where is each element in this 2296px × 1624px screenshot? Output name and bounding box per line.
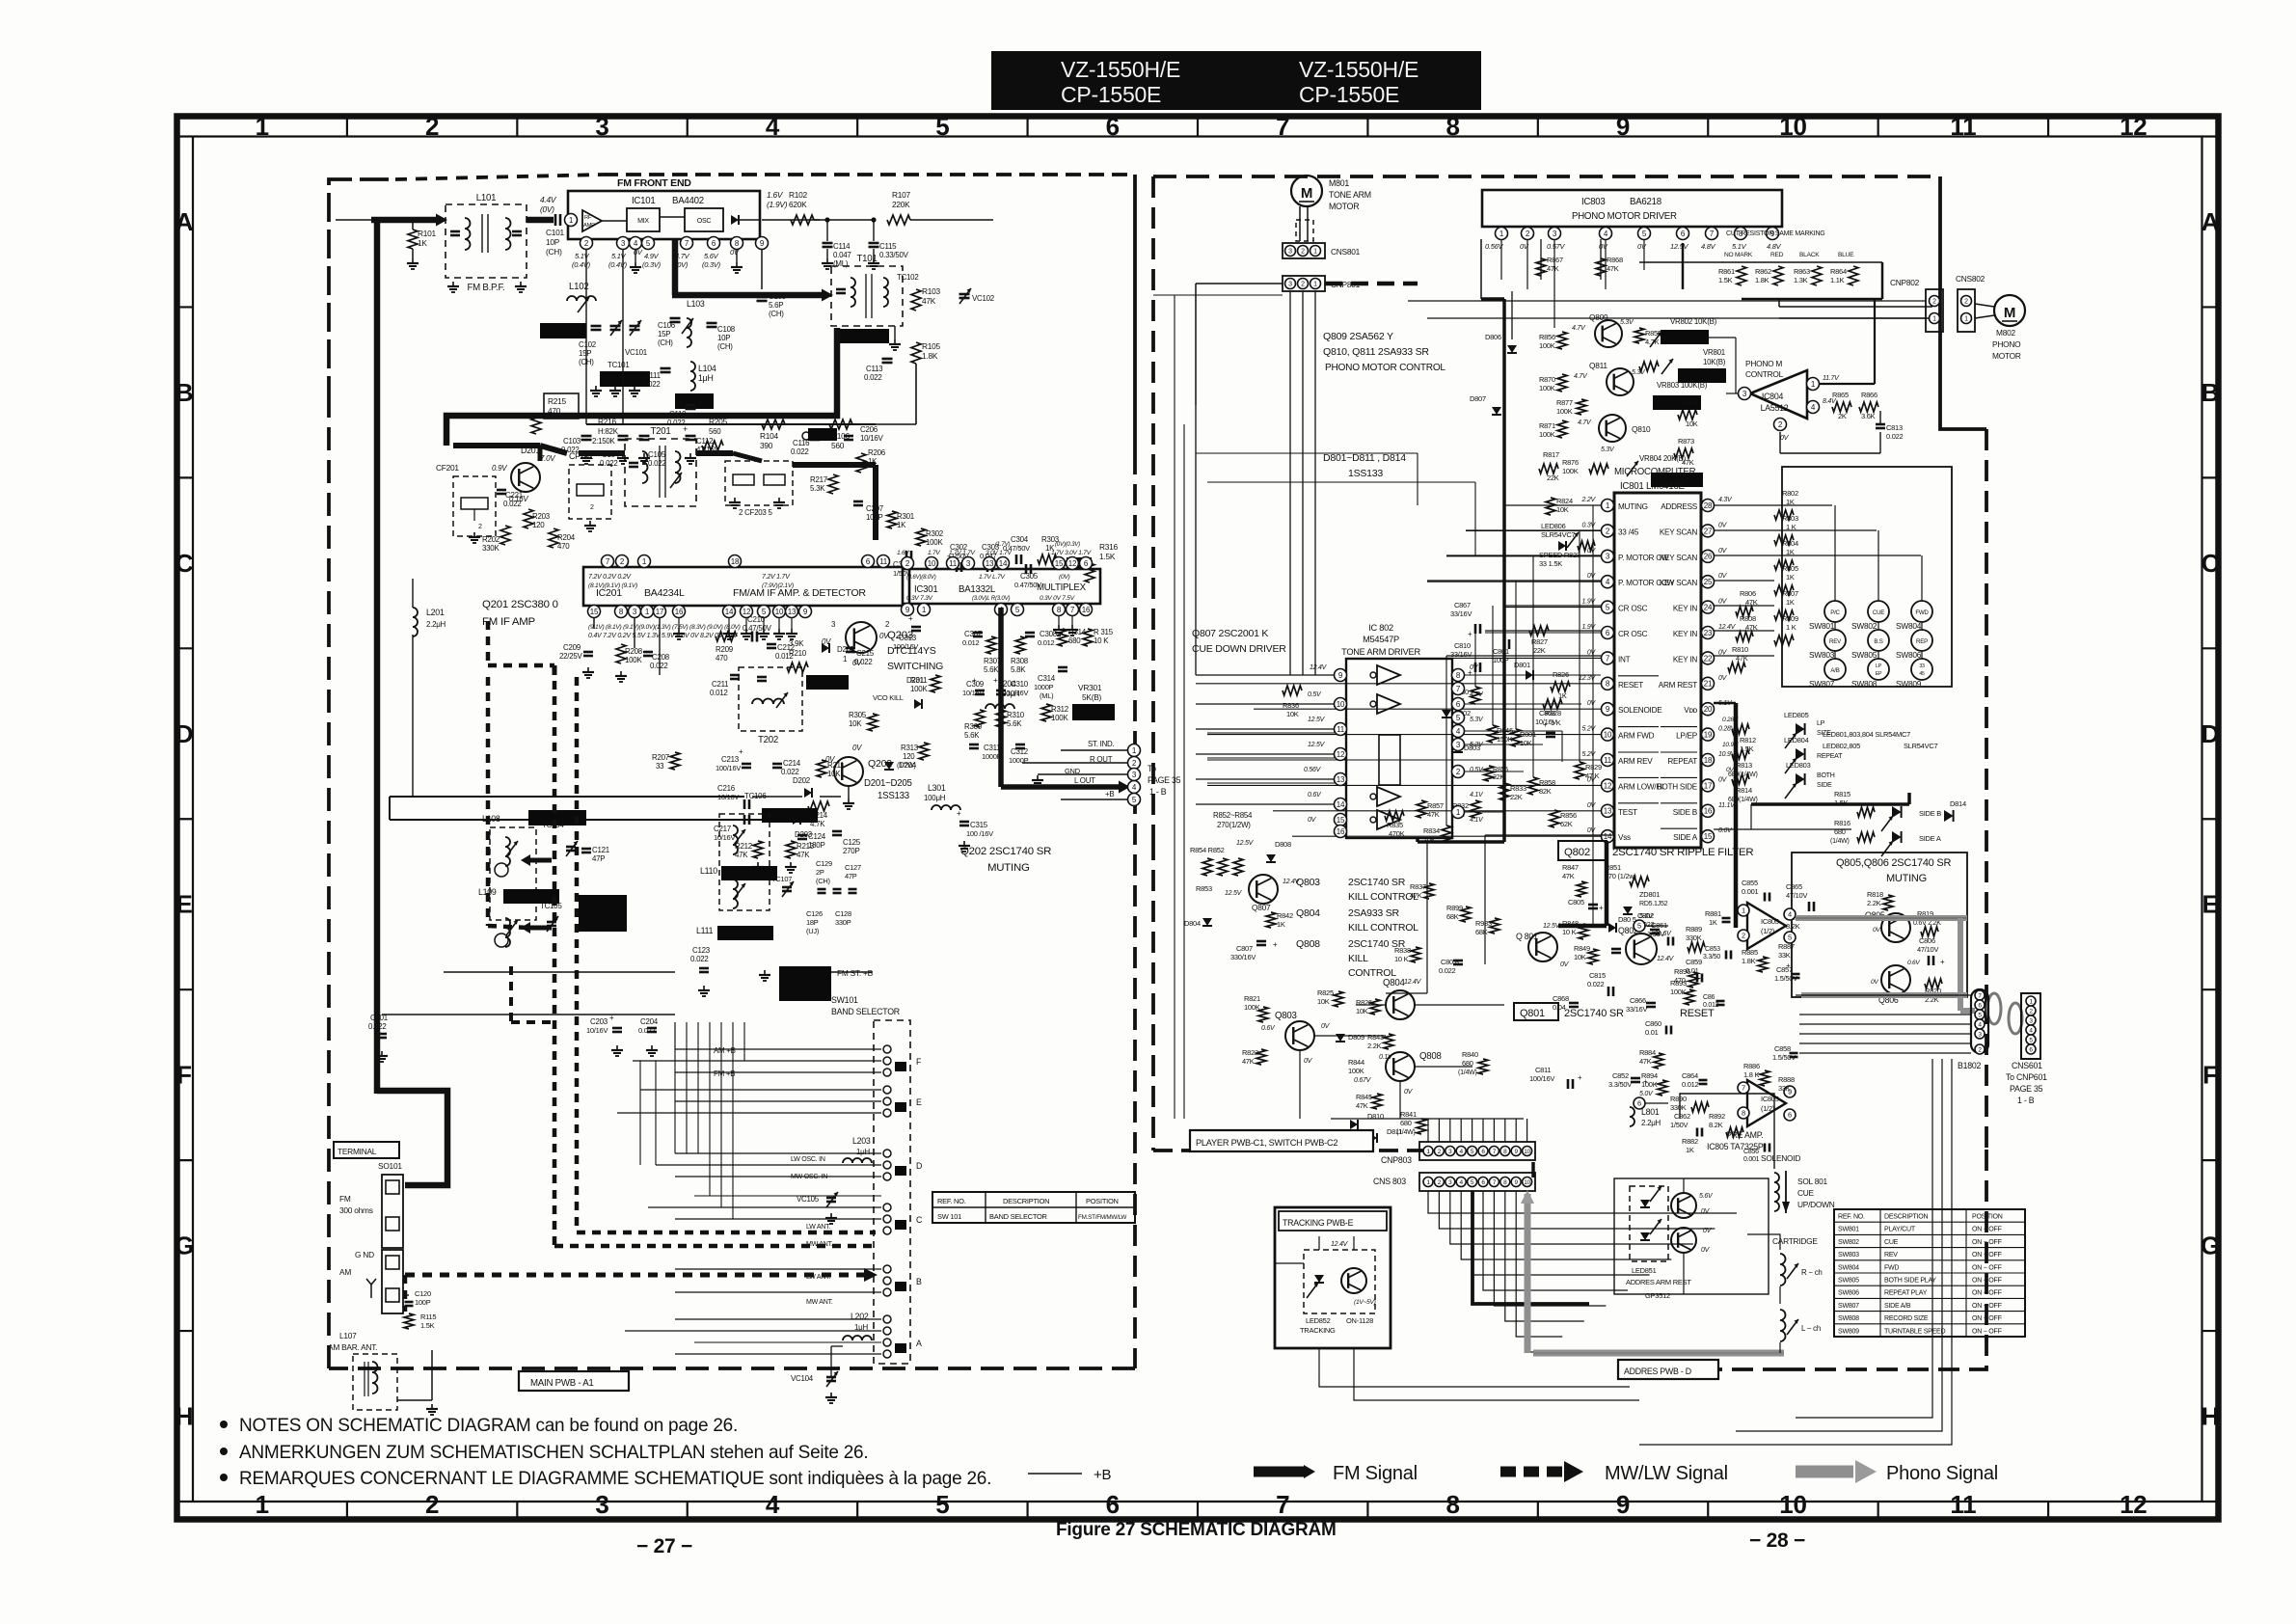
MW/LW dashed AM antenna trace (405, 1273, 864, 1278)
IC301 top pins (902, 557, 914, 570)
svg-text:MOTOR: MOTOR (1992, 351, 2021, 361)
svg-text:68K: 68K (1446, 912, 1459, 921)
grid column tick bottom 3 (687, 1502, 689, 1520)
IC801 right pin 15 SIDE A (1702, 830, 1715, 843)
grid row tick right E (2202, 818, 2219, 820)
svg-text:ON − OFF: ON − OFF (1972, 1239, 2003, 1246)
thick trace pin5 down (1472, 1191, 1589, 1304)
svg-text:AM +B: AM +B (714, 1046, 736, 1055)
svg-text:R810: R810 (1732, 645, 1748, 654)
svg-text:5.1V: 5.1V (1732, 242, 1747, 251)
svg-text:ON − OFF: ON − OFF (1972, 1252, 2003, 1259)
svg-text:H: H (2201, 1402, 2220, 1431)
VR803 blob (1653, 395, 1701, 410)
svg-text:Figure 27 SCHEMATIC DIAGRAM: Figure 27 SCHEMATIC DIAGRAM (1056, 1520, 1337, 1540)
svg-text:CR OSC: CR OSC (1618, 605, 1648, 613)
IC801 left pin 11 ARM REV (1602, 754, 1614, 767)
svg-text:SW802: SW802 (1838, 1239, 1859, 1246)
svg-text:28: 28 (1704, 501, 1713, 510)
svg-text:C120: C120 (415, 1289, 431, 1298)
svg-text:R216: R216 (598, 417, 617, 426)
svg-text:+B: +B (1094, 1467, 1112, 1483)
capacitor C108 10P (707, 322, 717, 325)
svg-text:82K: 82K (1539, 787, 1552, 796)
svg-text:R307: R307 (984, 657, 1001, 665)
svg-text:0.022: 0.022 (503, 500, 522, 508)
svg-text:0.28V: 0.28V (1722, 717, 1739, 723)
svg-text:REV: REV (1884, 1252, 1898, 1259)
svg-text:13: 13 (788, 608, 797, 616)
grid column tick top 10 (1877, 117, 1879, 137)
svg-text:13: 13 (1604, 807, 1612, 816)
tracking wires (1318, 1236, 1320, 1250)
svg-text:DESCRIPTION: DESCRIPTION (1884, 1214, 1928, 1221)
svg-text:1.6V: 1.6V (767, 190, 784, 200)
resistor R857 47K (1417, 800, 1426, 818)
svg-text:5.3V: 5.3V (1470, 717, 1484, 723)
grid row tick right C (2202, 476, 2219, 478)
VR804 blob (1651, 473, 1703, 487)
switch box outline (1782, 467, 1952, 687)
transistor Q811 (1607, 368, 1634, 395)
svg-text:10K: 10K (1686, 420, 1698, 428)
FM signal trace from antenna (371, 217, 436, 224)
svg-text:LP: LP (1817, 720, 1825, 727)
svg-text:560: 560 (831, 441, 845, 450)
svg-text:0.01: 0.01 (1645, 1028, 1659, 1037)
svg-text:C807: C807 (1236, 944, 1253, 953)
svg-text:R888: R888 (1778, 1075, 1795, 1084)
svg-text:0.67V: 0.67V (1354, 1077, 1372, 1084)
black slug TC101 (600, 371, 650, 387)
svg-text:D807: D807 (1470, 394, 1486, 403)
svg-text:C209: C209 (563, 643, 581, 652)
wire ST IND (1061, 749, 1128, 751)
svg-text:47K: 47K (1562, 872, 1575, 880)
svg-text:C210: C210 (747, 615, 766, 624)
Q801 reset label (1514, 1003, 1558, 1020)
svg-text:(7.9V)(2.1V): (7.9V)(2.1V) (762, 582, 794, 589)
svg-text:1K: 1K (868, 457, 878, 466)
svg-text:1.8K: 1.8K (1742, 957, 1756, 965)
svg-text:100K: 100K (1670, 988, 1687, 996)
svg-text:10 K: 10 K (1394, 955, 1409, 963)
svg-text:LP/EP: LP/EP (1676, 732, 1698, 741)
svg-text:LP: LP (1876, 663, 1882, 669)
svg-text:R856: R856 (1560, 811, 1577, 820)
addres phototransistor lower (1671, 1228, 1696, 1253)
diode D202 (804, 788, 812, 798)
svg-text:23: 23 (1704, 629, 1713, 637)
svg-text:(0V): (0V) (1059, 574, 1070, 581)
FM trace elbow to SO101 (377, 1091, 447, 1185)
svg-text:C204: C204 (640, 1017, 659, 1026)
svg-text:F: F (2202, 1061, 2218, 1090)
svg-text:68K: 68K (1475, 928, 1488, 936)
svg-text:SW 101: SW 101 (937, 1212, 961, 1221)
svg-text:Q202 2SC1740 SR: Q202 2SC1740 SR (960, 846, 1051, 857)
svg-text:0.022: 0.022 (791, 447, 809, 456)
transistor Q808 (1386, 1052, 1415, 1081)
transistor Q801 (1528, 933, 1557, 961)
wires to solenoid (1680, 1094, 1774, 1119)
svg-text:0.022: 0.022 (650, 662, 668, 670)
svg-text:0.6V: 0.6V (1308, 792, 1322, 798)
svg-text:CUE DOWN DRIVER: CUE DOWN DRIVER (1192, 643, 1286, 655)
svg-text:10: 10 (1604, 730, 1612, 739)
wire rows to band selector (675, 1048, 881, 1050)
Q802 ripple filter label (1558, 841, 1607, 860)
phono signal trace upper (1796, 915, 1967, 921)
svg-text:R205: R205 (709, 417, 728, 426)
svg-text:330K: 330K (1670, 1103, 1687, 1112)
svg-text:ARM FWD: ARM FWD (1618, 732, 1655, 741)
bus wire horizontals (1153, 294, 1283, 296)
svg-text:14: 14 (725, 608, 734, 616)
grid column tick bottom 2 (516, 1502, 518, 1520)
capacitor C109 5.6P (757, 296, 768, 299)
horizontal feeder lines from IF area (674, 1022, 676, 1049)
ground pin8 (736, 249, 738, 262)
trimcap TC104 sym (566, 846, 576, 849)
wire IF bottom bus (444, 971, 675, 973)
svg-text:M54547P: M54547P (1363, 635, 1399, 644)
svg-text:D801~D811 , D814: D801~D811 , D814 (1323, 452, 1406, 464)
gray phono vertical from fan (1525, 1254, 1531, 1353)
svg-text:100P: 100P (1493, 656, 1509, 664)
wires IC801 to switch matrix (1714, 504, 1832, 506)
switch SW809 33/45 (1911, 659, 1932, 680)
svg-text:100/16V: 100/16V (716, 764, 741, 772)
wires fan below preamp (1796, 1059, 1932, 1418)
wire rows into IC801 left (1504, 504, 1601, 506)
svg-text:SW807: SW807 (1838, 1303, 1859, 1310)
svg-text:R204: R204 (557, 533, 576, 542)
wire long horizontal under IF strip (382, 1014, 675, 1015)
svg-text:R103: R103 (922, 286, 941, 296)
tracking phototransistor (1341, 1268, 1366, 1293)
resistor R214 4.7K (808, 801, 829, 811)
svg-text:P/C: P/C (1830, 609, 1840, 616)
resistor R870 100K (1557, 374, 1567, 392)
svg-text:Vss: Vss (1618, 833, 1631, 842)
wires IC801 bottom to kill control (1485, 834, 1614, 836)
svg-text:14: 14 (999, 559, 1008, 568)
svg-text:(1/2): (1/2) (1761, 1104, 1775, 1113)
svg-text:FWD: FWD (1884, 1264, 1899, 1271)
grid column tick bottom 6 (1197, 1502, 1199, 1520)
IC101 bottom pins (581, 237, 593, 250)
svg-text:C864: C864 (1682, 1071, 1698, 1080)
svg-text:12: 12 (1068, 559, 1077, 568)
svg-text:+: + (1578, 1073, 1582, 1082)
svg-text:120: 120 (532, 521, 545, 529)
MAIN PWB-A1 label box (519, 1371, 629, 1391)
resistor R835 470K (1385, 811, 1404, 821)
svg-text:CARTRIDGE: CARTRIDGE (1772, 1236, 1818, 1246)
addres box wires (1614, 1178, 1769, 1294)
IC801 left pin 3 P. MOTOR CW (1602, 550, 1614, 562)
svg-text:5.3K: 5.3K (810, 484, 825, 493)
svg-text:100 /16V: 100 /16V (966, 829, 993, 838)
svg-text:C211: C211 (712, 680, 729, 689)
resistor R817 22K (1539, 464, 1558, 474)
grid row tick left G (177, 1159, 194, 1161)
svg-text:E: E (916, 1097, 922, 1107)
svg-text:R802: R802 (1782, 489, 1798, 498)
svg-text:+: + (1543, 720, 1548, 729)
svg-text:Q807: Q807 (1252, 903, 1271, 912)
svg-text:1.8 K: 1.8 K (1743, 1070, 1759, 1079)
transistor Q202 (834, 757, 863, 786)
svg-text:330K: 330K (482, 544, 500, 553)
svg-text:PHONO M: PHONO M (1745, 359, 1782, 368)
svg-text:ST. IND.: ST. IND. (1088, 740, 1114, 748)
svg-text:0.022: 0.022 (864, 373, 882, 382)
svg-text:100K: 100K (1556, 407, 1573, 416)
svg-text:C114: C114 (833, 242, 851, 251)
svg-text:C859: C859 (1686, 958, 1702, 966)
svg-text:R302: R302 (926, 529, 943, 538)
transistor Q810 (1599, 415, 1626, 442)
svg-text:(CH): (CH) (658, 338, 673, 347)
svg-text:5.3V: 5.3V (1620, 319, 1634, 326)
svg-text:ARM REST: ARM REST (1659, 681, 1697, 690)
svg-text:2SA933 SR: 2SA933 SR (1348, 907, 1399, 919)
svg-text:E: E (2201, 890, 2218, 919)
svg-text:B: B (2201, 378, 2220, 407)
arrow into L109 (528, 926, 552, 931)
svg-text:33/16V: 33/16V (1626, 1005, 1647, 1014)
svg-text:12.4V: 12.4V (1657, 956, 1675, 962)
svg-text:47K: 47K (797, 851, 810, 859)
IC201 bottom pins (588, 606, 601, 618)
svg-text:VZ-1550H/E: VZ-1550H/E (1299, 57, 1418, 82)
svg-text:100P: 100P (415, 1298, 431, 1307)
wire L107 to gnd (397, 1399, 432, 1401)
resistor R824 10K (1546, 498, 1555, 515)
svg-text:0.3V 7.3V: 0.3V 7.3V (906, 595, 933, 602)
svg-text:33K: 33K (1778, 951, 1791, 960)
tracking inner dashed box (1304, 1250, 1375, 1313)
svg-text:10K(B): 10K(B) (1703, 358, 1726, 366)
svg-text:L108: L108 (482, 814, 500, 824)
svg-text:1.8K: 1.8K (1755, 276, 1769, 284)
svg-text:0.1V: 0.1V (1379, 1054, 1393, 1061)
svg-text:KEY SCAN: KEY SCAN (1660, 579, 1698, 587)
svg-text:10: 10 (1779, 1490, 1806, 1519)
resistor R309 5.6K (975, 710, 985, 727)
svg-text:ON − OFF: ON − OFF (1972, 1315, 2003, 1322)
marking bus bottom (1742, 298, 1882, 301)
svg-text:C123: C123 (692, 946, 711, 955)
svg-text:10/16V: 10/16V (1007, 689, 1028, 697)
svg-text:16: 16 (1337, 827, 1345, 836)
IC802 box (1346, 659, 1452, 838)
svg-text:C801: C801 (1493, 647, 1509, 656)
svg-text:IC 802: IC 802 (1368, 623, 1393, 633)
svg-text:10K: 10K (849, 719, 862, 728)
svg-text:+: + (972, 676, 977, 685)
transistor D201 Q-circle (511, 463, 540, 492)
thick 12V bus (1502, 299, 1506, 842)
svg-text:13: 13 (986, 559, 994, 568)
svg-text:TRACKING PWB-E: TRACKING PWB-E (1283, 1218, 1354, 1228)
IC801 right pin 18 REPEAT (1702, 754, 1715, 767)
svg-text:PLAY/CUT: PLAY/CUT (1884, 1227, 1916, 1233)
svg-text:2.2μH: 2.2μH (1641, 1119, 1661, 1127)
capacitor C314 1000P (1058, 666, 1067, 669)
svg-text:(0.4V): (0.4V) (608, 260, 628, 269)
transformer T101 (831, 266, 903, 326)
svg-text:1K: 1K (1277, 920, 1285, 929)
FM trace to T101 (672, 292, 822, 299)
svg-text:10K: 10K (1317, 997, 1330, 1006)
band selector dashed box (874, 1020, 910, 1364)
svg-text:D810: D810 (1367, 1112, 1384, 1121)
LED806 diode (1558, 541, 1566, 551)
svg-text:VR804 20K(B): VR804 20K(B) (1639, 454, 1687, 463)
svg-text:14: 14 (1337, 800, 1345, 809)
svg-text:22K: 22K (1533, 646, 1546, 655)
svg-text:ADDRES PWB - D: ADDRES PWB - D (1624, 1367, 1691, 1376)
svg-text:MAIN PWB - A1: MAIN PWB - A1 (530, 1378, 594, 1389)
svg-text:EP: EP (1876, 671, 1882, 677)
diode D814 (1944, 810, 1954, 822)
resistor R207 33 (670, 752, 680, 770)
svg-text:CNP802: CNP802 (1890, 278, 1920, 287)
svg-text:C111: C111 (644, 371, 662, 380)
svg-text:LED805: LED805 (1784, 711, 1809, 719)
resistor R877 100K (1577, 399, 1586, 415)
black blob near R316 (1067, 557, 1092, 569)
IC801 left pin 13 TEST (1602, 804, 1614, 817)
svg-text:+: + (908, 614, 913, 623)
svg-text:0.001: 0.001 (1743, 1156, 1760, 1163)
svg-text:RESET: RESET (1680, 1008, 1715, 1019)
border frame right band line (2201, 137, 2202, 1502)
svg-text:19: 19 (1704, 730, 1713, 739)
IC801 right pin 16 SIDE B (1702, 804, 1715, 817)
svg-text:(0V)(0.3V): (0V)(0.3V) (1055, 541, 1080, 548)
svg-text:BOTH: BOTH (1817, 772, 1835, 779)
svg-text:2K: 2K (1838, 412, 1847, 420)
phono trace into B1802 (1960, 1008, 1975, 1014)
svg-text:M802: M802 (1996, 328, 2015, 338)
svg-text:8: 8 (1446, 112, 1460, 141)
diode D204 (884, 762, 894, 770)
svg-text:6: 6 (1637, 1099, 1641, 1108)
black blob TC106 (762, 808, 818, 823)
svg-text:(9.1V) (8.1V) (9.1V)(9.0V)(: (9.1V) (8.1V) (9.1V)(9.0V)(1.3V) (7.5V) … (588, 624, 741, 631)
svg-text:SIDE A/B: SIDE A/B (1884, 1303, 1911, 1310)
svg-text:0V: 0V (852, 744, 862, 752)
svg-text:KEY IN: KEY IN (1673, 655, 1697, 663)
svg-text:C86: C86 (1703, 994, 1715, 1001)
switch matrix vertical wires (1834, 505, 1836, 601)
svg-text:AMP: AMP (583, 223, 595, 229)
svg-text:1.7V 3.0V 1.7V: 1.7V 3.0V 1.7V (1051, 550, 1092, 556)
svg-text:R818: R818 (1867, 890, 1883, 899)
svg-text:2: 2 (1301, 249, 1305, 256)
resistor R861 1.5K (1737, 266, 1746, 285)
svg-text:PHONO MOTOR CONTROL: PHONO MOTOR CONTROL (1325, 363, 1445, 373)
svg-text:2SC1740 SR: 2SC1740 SR (1348, 877, 1406, 888)
resistor R208 100K (616, 644, 626, 663)
svg-text:VCO KILL: VCO KILL (873, 693, 904, 702)
grid row tick right F (2202, 988, 2219, 990)
wire net verticals center (1445, 656, 1447, 826)
capacitor C851 (1611, 948, 1621, 951)
svg-text:100μH: 100μH (924, 794, 946, 802)
svg-text:10/16V: 10/16V (586, 1026, 608, 1035)
grid column tick bottom 10 (1877, 1502, 1879, 1520)
capacitor C104 0.022 (622, 249, 624, 424)
svg-text:100K: 100K (926, 538, 943, 547)
svg-text:100K: 100K (1641, 1080, 1658, 1089)
svg-text:R856: R856 (1539, 333, 1555, 341)
svg-text:R824: R824 (1556, 497, 1573, 505)
ground pin4 (635, 249, 636, 262)
svg-text:4.3V: 4.3V (1718, 497, 1733, 503)
svg-text:(1/4W): (1/4W) (1830, 838, 1850, 845)
svg-text:T202: T202 (758, 735, 778, 745)
svg-text:3.6K: 3.6K (1861, 412, 1876, 420)
capacitor C807 330/16V (1256, 940, 1266, 943)
svg-text:1: 1 (1742, 907, 1745, 915)
resistors R852-854 vertical trio (1202, 858, 1212, 876)
svg-text:330K: 330K (1686, 934, 1702, 942)
svg-text:12.5V: 12.5V (1225, 890, 1243, 897)
svg-text:0.022: 0.022 (648, 459, 666, 468)
svg-text:3.3/50: 3.3/50 (1703, 954, 1720, 961)
svg-text:2: 2 (590, 504, 594, 511)
svg-text:2: 2 (1301, 282, 1305, 288)
svg-text:C103: C103 (563, 437, 581, 446)
svg-text:R316: R316 (1099, 542, 1119, 552)
resistor R864 1.1K (1849, 266, 1858, 285)
svg-text:5.6K: 5.6K (1007, 719, 1022, 728)
resistor R873 47K (1674, 448, 1693, 458)
svg-text:R808: R808 (1740, 614, 1756, 623)
black blob TC104 (528, 810, 586, 826)
svg-text:5.6K: 5.6K (964, 731, 980, 740)
svg-text:R877: R877 (1556, 398, 1573, 407)
svg-text:10: 10 (775, 608, 784, 616)
L107 dashed box (353, 1354, 397, 1410)
diode D203 (793, 815, 800, 825)
motor M802 (1994, 295, 2025, 326)
svg-text:R202: R202 (482, 535, 500, 544)
svg-text:5: 5 (1637, 922, 1641, 931)
svg-text:4.7V: 4.7V (1572, 325, 1586, 332)
svg-text:8.4V: 8.4V (1823, 398, 1837, 405)
svg-text:CF201: CF201 (436, 463, 459, 473)
svg-text:IC805: IC805 (1761, 917, 1779, 926)
MW/LW dashed vertical at terminal (403, 1275, 408, 1312)
svg-text:3.3/50V: 3.3/50V (1608, 1080, 1632, 1089)
IC801 right pin 21 ARM REST (1702, 677, 1715, 690)
svg-text:R107: R107 (892, 190, 911, 200)
svg-text:R301: R301 (897, 512, 915, 521)
svg-text:0.33/50V: 0.33/50V (879, 251, 909, 259)
svg-text:1000P: 1000P (1034, 683, 1054, 691)
svg-text:5.6P: 5.6P (769, 301, 783, 310)
svg-text:0.022: 0.022 (642, 380, 661, 389)
wire IC804 pin1 (1819, 383, 1875, 385)
grid column tick bottom 7 (1366, 1502, 1368, 1520)
svg-text:Q811: Q811 (1589, 361, 1607, 370)
